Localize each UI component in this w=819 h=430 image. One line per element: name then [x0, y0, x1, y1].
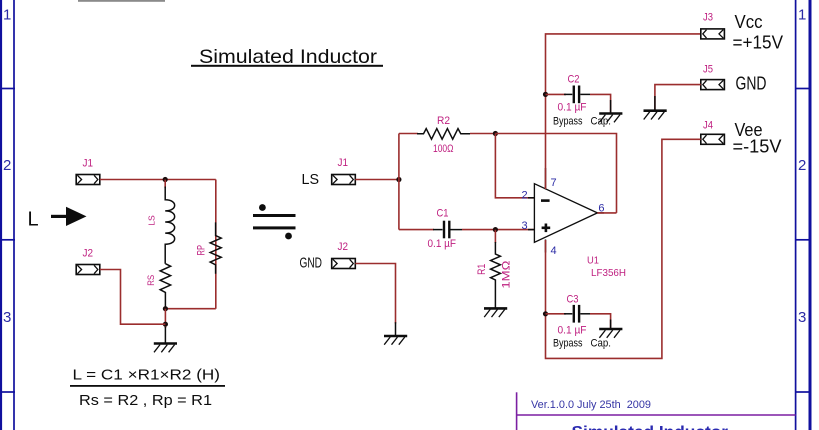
connector J2 (left): [76, 265, 100, 275]
svg-text:Ver.1.0.0 July 25th 2009: Ver.1.0.0 July 25th 2009: [531, 399, 651, 411]
wire R2 to node: [470, 133, 495, 135]
svg-text:J2: J2: [83, 248, 94, 260]
svg-text:100Ω: 100Ω: [433, 143, 454, 155]
node J1 branch: [396, 177, 401, 182]
svg-text:J2: J2: [338, 241, 349, 253]
inductor LS: [165, 187, 174, 264]
ground (C2): [599, 100, 622, 122]
svg-text:RP: RP: [196, 245, 208, 256]
ground (middle J2): [384, 322, 407, 345]
wire C1 left: [399, 229, 434, 231]
svg-text:L: L: [28, 209, 39, 231]
wire branch vertical R2/C1: [398, 134, 400, 230]
capacitor C3: [564, 305, 590, 323]
node R2/feedback/pin2: [493, 131, 498, 136]
wire C1 to node: [462, 229, 534, 231]
svg-text:L = C1 ×R1×R2 (H): L = C1 ×R1×R2 (H): [73, 368, 221, 384]
resistor RS: [160, 264, 170, 309]
wire down to LS: [164, 180, 166, 189]
formula divider: [70, 385, 225, 387]
ground (under R1): [484, 284, 507, 317]
svg-text:1: 1: [798, 7, 806, 24]
wire C2 right to ground: [590, 94, 611, 113]
svg-text:Cap.: Cap.: [591, 338, 612, 350]
arrow: [51, 207, 87, 226]
equivalence symbol: [253, 204, 296, 239]
resistor RP: [210, 222, 221, 273]
svg-text:=-15V: =-15V: [733, 137, 782, 157]
svg-text:U1: U1: [587, 255, 599, 267]
ground (C3): [599, 320, 622, 338]
svg-text:2: 2: [522, 190, 528, 202]
wire pin6 output: [597, 212, 616, 214]
node C1/R1/pin3: [493, 227, 498, 232]
zone numbers: [3, 7, 806, 327]
svg-text:RS: RS: [146, 275, 156, 286]
svg-text:7: 7: [551, 177, 557, 189]
node RS/RP junction: [163, 306, 168, 311]
svg-text:2: 2: [3, 157, 11, 174]
wire J2 to ground node: [100, 270, 166, 325]
node junction to ground: [164, 309, 166, 328]
svg-text:=+15V: =+15V: [733, 32, 784, 52]
wire C2 left: [546, 93, 567, 95]
ground (J5): [644, 96, 667, 120]
wire Vcc rail: [546, 34, 701, 189]
svg-text:Bypass: Bypass: [553, 338, 583, 350]
svg-text:4: 4: [551, 245, 557, 257]
op-amp U1: [528, 168, 604, 253]
svg-text:0.1 µF: 0.1 µF: [428, 238, 457, 250]
svg-text:J5: J5: [703, 64, 713, 76]
svg-text:1MΩ: 1MΩ: [500, 261, 512, 289]
wire J2 to ground: [355, 264, 395, 324]
svg-text:C3: C3: [567, 294, 579, 306]
svg-text:3: 3: [3, 309, 11, 326]
capacitor C1: [433, 221, 462, 239]
svg-text:3: 3: [798, 309, 806, 326]
node (junction) J1/LS/RP: [163, 177, 168, 182]
svg-text:J4: J4: [703, 119, 713, 131]
svg-text:1: 1: [3, 7, 11, 24]
title block lines: [517, 392, 796, 430]
svg-text:Simulated Inductor: Simulated Inductor: [572, 424, 729, 430]
cut-off mark top edge: [78, 0, 165, 2]
svg-text:J3: J3: [703, 12, 713, 24]
svg-text:LS: LS: [147, 215, 157, 226]
wire node RS bottom to RP: [165, 308, 215, 310]
svg-text:LF356H: LF356H: [591, 267, 626, 279]
wire C3 right to ground: [590, 314, 611, 329]
wire J5 to ground: [655, 85, 701, 111]
connector J1 (left): [76, 175, 100, 185]
svg-text:Bypass: Bypass: [553, 116, 583, 128]
svg-text:0.1 µF: 0.1 µF: [558, 101, 587, 113]
capacitor C2: [564, 86, 590, 104]
wire J1 to node: [100, 179, 216, 181]
wire Vee rail: [546, 139, 701, 358]
connector J1 (middle): [332, 175, 356, 185]
ground (left circuit): [154, 327, 177, 352]
wire node down to pin2: [495, 134, 534, 198]
wire RP branch vertical: [215, 180, 217, 309]
svg-text:GND: GND: [300, 254, 323, 271]
wire to R2: [399, 133, 418, 135]
resistor R1: [494, 230, 496, 243]
svg-text:2: 2: [798, 157, 806, 174]
wire J1 to node: [355, 179, 399, 181]
node C3 tap: [543, 311, 548, 316]
connector J2 (middle): [332, 259, 356, 269]
svg-text:Vcc: Vcc: [735, 12, 763, 32]
svg-text:R1: R1: [476, 264, 488, 275]
resistor R2: [417, 129, 470, 140]
svg-text:GND: GND: [736, 73, 767, 93]
wire feedback: [495, 134, 616, 213]
svg-text:0.1 µF: 0.1 µF: [558, 324, 587, 336]
node C2 tap: [543, 92, 548, 97]
connector J4: [701, 134, 725, 144]
connector J5: [701, 80, 725, 90]
svg-text:LS: LS: [302, 171, 320, 188]
svg-text:3: 3: [522, 220, 528, 232]
svg-text:J1: J1: [338, 157, 349, 169]
svg-text:Rs = R2 , Rp = R1: Rs = R2 , Rp = R1: [79, 393, 212, 409]
sheet title: [191, 46, 383, 68]
svg-text:C2: C2: [568, 74, 580, 86]
wire C3 left: [546, 313, 567, 315]
svg-text:J1: J1: [83, 158, 94, 170]
svg-text:R2: R2: [437, 115, 450, 127]
svg-text:C1: C1: [437, 208, 449, 220]
connector J3: [701, 29, 725, 39]
